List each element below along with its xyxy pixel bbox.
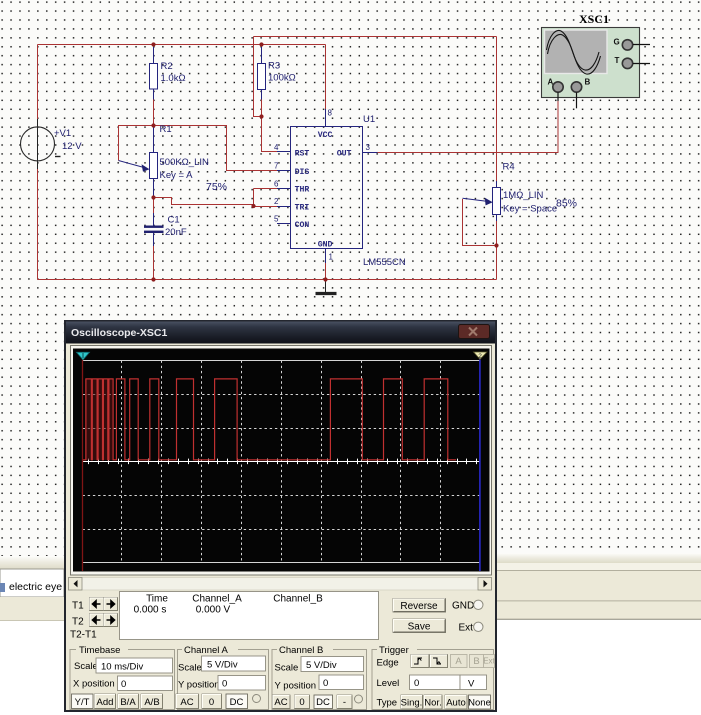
wire R3 lead to node	[261, 100, 263, 117]
voltage source V1	[21, 119, 83, 169]
svg-text:VCC: VCC	[318, 131, 333, 140]
svg-text:A/B: A/B	[144, 697, 159, 708]
cursor 1	[82, 360, 84, 572]
svg-text:Channel_B: Channel_B	[273, 594, 323, 605]
sine curve 2	[548, 34, 601, 74]
wire bottom rail	[38, 279, 497, 281]
svg-text:Scale: Scale	[275, 663, 299, 674]
wire OUT pin 3 to scope A	[377, 100, 558, 153]
wire top rail V1 to VCC	[38, 44, 326, 46]
wire R4 bottom to rail	[496, 215, 498, 280]
pin 7 DIS stub	[277, 170, 291, 172]
svg-text:T1: T1	[72, 601, 84, 612]
svg-text:A: A	[455, 656, 462, 667]
svg-text:0: 0	[121, 679, 126, 690]
svg-text:LM555CN: LM555CN	[363, 257, 406, 268]
svg-text:75%: 75%	[206, 181, 227, 193]
svg-text:XSC1: XSC1	[579, 12, 609, 26]
svg-text:G: G	[614, 38, 620, 47]
svg-text:0.000 V: 0.000 V	[196, 605, 231, 616]
svg-text:AC: AC	[180, 697, 193, 708]
svg-text:4: 4	[274, 143, 279, 152]
svg-text:B: B	[585, 78, 591, 87]
Trigger group	[372, 650, 494, 710]
capacitor C1	[144, 198, 187, 280]
node R3 top	[259, 42, 263, 46]
svg-text:CON: CON	[295, 221, 310, 230]
wire out top rail	[254, 36, 497, 38]
svg-text:Save: Save	[408, 622, 431, 633]
wire R4 wiper loop	[463, 199, 497, 246]
potentiometer R1	[119, 124, 228, 196]
svg-text:electric eye: electric eye	[9, 581, 62, 593]
pin 3 OUT stub	[363, 152, 378, 154]
svg-text:Type: Type	[377, 698, 398, 709]
svg-text:Channel B: Channel B	[279, 645, 323, 656]
svg-text:Auto: Auto	[446, 698, 466, 709]
svg-text:1.0kΩ: 1.0kΩ	[161, 73, 186, 84]
svg-text:Trigger: Trigger	[379, 645, 409, 656]
svg-text:5 V/Div: 5 V/Div	[207, 660, 238, 671]
svg-text:U1: U1	[363, 114, 375, 125]
svg-text:OUT: OUT	[337, 149, 352, 158]
svg-text:0: 0	[209, 697, 214, 708]
pin 5 CON stub	[277, 223, 291, 225]
svg-text:DIS: DIS	[295, 168, 310, 177]
svg-text:Level: Level	[377, 678, 400, 689]
svg-text:Timebase: Timebase	[79, 645, 120, 656]
svg-text:Y position: Y position	[275, 681, 317, 692]
potentiometer R4	[463, 162, 578, 222]
svg-text:THR: THR	[295, 186, 310, 195]
ground	[316, 280, 337, 294]
svg-text:1: 1	[329, 253, 334, 262]
svg-text:85%: 85%	[556, 198, 577, 210]
node R2 top	[151, 42, 155, 46]
svg-text:R4: R4	[503, 162, 515, 173]
svg-text:0: 0	[299, 697, 304, 708]
svg-text:None: None	[468, 698, 491, 709]
svg-text:2: 2	[478, 353, 482, 360]
svg-text:B: B	[473, 656, 479, 667]
svg-text:3: 3	[366, 143, 371, 152]
svg-text:C1: C1	[168, 215, 180, 226]
svg-text:20nF: 20nF	[165, 227, 187, 238]
svg-text:DC: DC	[230, 697, 244, 708]
svg-text:V: V	[468, 679, 475, 690]
workspace background	[0, 0, 701, 557]
svg-text:Oscilloscope-XSC1: Oscilloscope-XSC1	[71, 327, 167, 339]
svg-text:RST: RST	[295, 149, 310, 158]
node R1 bottom	[151, 195, 155, 199]
title bar	[66, 322, 495, 344]
svg-text:12 V: 12 V	[62, 141, 82, 152]
resistor R3	[258, 47, 296, 100]
svg-text:Reverse: Reverse	[400, 601, 438, 612]
svg-text:0: 0	[414, 678, 419, 689]
svg-text:GND: GND	[452, 601, 474, 612]
wire R4 top lead from rail	[496, 37, 498, 189]
svg-text:8: 8	[328, 109, 333, 118]
node C1 bottom	[151, 277, 155, 281]
node GND rail	[323, 277, 327, 281]
wire R3 bottom to RST pin 4	[262, 117, 278, 152]
svg-text:100kΩ: 100kΩ	[268, 73, 296, 84]
svg-text:0.000 s: 0.000 s	[134, 605, 167, 616]
wire VCC drop	[325, 45, 327, 110]
svg-text:+V1: +V1	[54, 128, 71, 139]
svg-text:R2: R2	[161, 61, 173, 72]
display scrollbar	[69, 578, 492, 591]
svg-text:Channel A: Channel A	[184, 645, 229, 656]
channel A trace	[85, 379, 114, 460]
svg-text:R3: R3	[268, 61, 280, 72]
channel B trace	[83, 461, 480, 463]
svg-text:7: 7	[274, 161, 279, 170]
svg-text:B/A: B/A	[120, 697, 136, 708]
svg-text:Channel_A: Channel_A	[192, 594, 242, 605]
pin 1 GND stub	[325, 249, 327, 264]
svg-text:T2: T2	[72, 617, 84, 628]
svg-text:Scale: Scale	[178, 663, 202, 674]
node R1 top	[151, 123, 155, 127]
svg-text:Y/T: Y/T	[75, 697, 90, 708]
cursor 2	[479, 360, 481, 572]
svg-text:Edge: Edge	[377, 658, 399, 669]
svg-text:0: 0	[323, 678, 328, 689]
node R4 wiper	[494, 243, 498, 247]
svg-text:6: 6	[274, 180, 279, 189]
svg-text:DC: DC	[316, 697, 330, 708]
svg-text:500KΩ_LIN: 500KΩ_LIN	[160, 157, 209, 168]
oscilloscope window frame	[64, 320, 497, 712]
pin 6 THR stub	[277, 188, 291, 190]
pin 4 RST stub	[277, 151, 291, 153]
svg-text:Sing.: Sing.	[401, 698, 423, 709]
display frame	[71, 346, 492, 576]
svg-text:Time: Time	[146, 594, 168, 605]
svg-text:1MΩ_LIN: 1MΩ_LIN	[503, 190, 544, 201]
svg-text:Scale: Scale	[74, 661, 98, 672]
svg-text:T: T	[615, 56, 620, 65]
svg-text:Y position: Y position	[178, 680, 220, 691]
svg-text:Add: Add	[97, 697, 114, 708]
wire R1 top to DIS pin 7	[154, 126, 278, 171]
svg-text:AC: AC	[274, 697, 287, 708]
svg-text:TRI: TRI	[295, 204, 310, 213]
svg-text:GND: GND	[318, 241, 333, 250]
svg-text:Nor.: Nor.	[424, 698, 441, 709]
svg-text:Ext: Ext	[459, 623, 474, 634]
svg-text:X position: X position	[73, 679, 115, 690]
op-amp U1 LM555CN body	[291, 114, 406, 268]
wire out rail to R3 bottom	[254, 37, 262, 117]
sine curve 1	[547, 30, 600, 70]
wire R1 wiper loop	[119, 126, 154, 161]
svg-text:0: 0	[222, 679, 227, 690]
wire R1 bottom to TRI pin 2	[154, 198, 254, 205]
svg-text:Key = A: Key = A	[160, 170, 194, 181]
wire left rail	[37, 45, 39, 280]
wire R2 bottom to R1 top	[153, 100, 155, 126]
bottom background bands	[0, 556, 64, 569]
pin 8 VCC stub	[325, 109, 327, 127]
svg-text:T2-T1: T2-T1	[70, 630, 97, 641]
close button	[459, 325, 490, 339]
svg-text:-: -	[343, 697, 346, 708]
svg-text:Key = Space: Key = Space	[503, 204, 557, 215]
Channel B group	[272, 650, 367, 710]
wire THR to TRI link	[254, 189, 278, 207]
resistor R2	[150, 47, 186, 100]
svg-text:R1: R1	[160, 124, 172, 135]
svg-text:10 ms/Div: 10 ms/Div	[101, 662, 143, 673]
svg-text:2: 2	[274, 197, 279, 206]
Channel A group	[178, 650, 269, 710]
svg-text:Ext: Ext	[483, 657, 495, 666]
node TRI	[251, 204, 255, 208]
pin 2 TRI stub	[277, 206, 291, 208]
node R3 bottom	[259, 114, 263, 118]
svg-text:5: 5	[274, 215, 279, 224]
Timebase group	[70, 650, 175, 710]
svg-text:5 V/Div: 5 V/Div	[306, 660, 337, 671]
wire GND pin 1 drop	[325, 262, 327, 280]
